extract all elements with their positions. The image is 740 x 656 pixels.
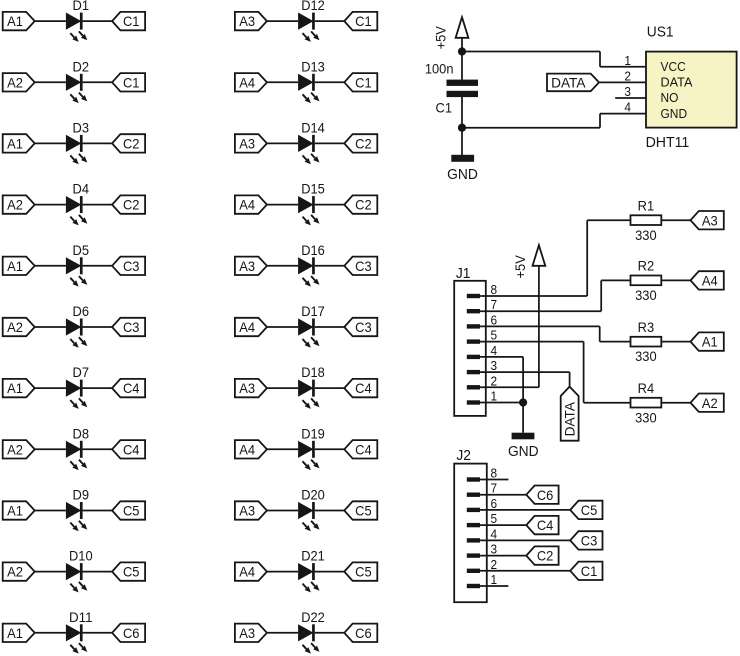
svg-text:+5V: +5V [512, 255, 528, 279]
net label C2 [112, 134, 145, 152]
svg-text:8: 8 [491, 282, 498, 297]
wire [83, 204, 113, 206]
wire [600, 341, 631, 343]
wire [267, 510, 298, 512]
wire [83, 510, 113, 512]
svg-text:A2: A2 [7, 441, 23, 457]
wire [461, 38, 463, 52]
svg-text:1: 1 [624, 53, 631, 68]
wire [661, 279, 690, 281]
pin 5 label [491, 511, 498, 526]
pin 1 label [624, 53, 631, 68]
wire [35, 510, 66, 512]
svg-text:C5: C5 [581, 502, 598, 518]
wire [315, 510, 345, 512]
svg-text:D18: D18 [301, 364, 325, 380]
wire [315, 204, 345, 206]
wire [315, 387, 345, 389]
net label A2 [3, 195, 35, 213]
ground [447, 155, 478, 183]
svg-text:A3: A3 [239, 380, 255, 396]
wire [480, 371, 570, 373]
net label C4 [526, 516, 558, 534]
net label C5 [344, 562, 377, 580]
svg-text:C1: C1 [123, 74, 140, 90]
pin 3 stub [615, 97, 646, 99]
wire [83, 387, 113, 389]
wire [267, 142, 298, 144]
svg-text:GND: GND [508, 443, 539, 460]
svg-text:C3: C3 [581, 533, 598, 549]
LED D22 [298, 609, 325, 654]
svg-text:C6: C6 [355, 625, 372, 641]
net label A4 [235, 440, 267, 458]
svg-text:DHT11: DHT11 [646, 134, 690, 151]
svg-text:C2: C2 [355, 136, 372, 152]
svg-text:D15: D15 [301, 181, 325, 197]
wire [315, 448, 345, 450]
svg-text:J1: J1 [456, 265, 471, 282]
svg-text:A2: A2 [7, 197, 23, 213]
svg-text:A2: A2 [7, 319, 23, 335]
wire [661, 219, 690, 221]
wire [587, 219, 630, 221]
pin 2 label [624, 68, 631, 83]
svg-text:D1: D1 [73, 0, 90, 13]
wire [599, 114, 601, 128]
connector J2 [454, 447, 487, 602]
svg-text:DATA: DATA [562, 401, 578, 436]
net label C6 [344, 624, 377, 642]
wire [522, 357, 524, 403]
net label C3 [570, 531, 602, 549]
svg-text:A4: A4 [239, 564, 255, 580]
wire [480, 341, 584, 343]
svg-text:330: 330 [635, 287, 657, 303]
wire [461, 52, 463, 80]
svg-text:A1: A1 [7, 258, 23, 274]
pin 6 label [491, 312, 498, 327]
wire [480, 402, 523, 404]
svg-text:A4: A4 [702, 273, 718, 289]
wire [599, 52, 601, 67]
svg-text:1: 1 [491, 389, 498, 404]
svg-text:330: 330 [635, 348, 657, 364]
pin 4 label [491, 526, 498, 541]
wire [315, 142, 345, 144]
svg-text:C1: C1 [355, 74, 372, 90]
net label DATA [547, 74, 599, 92]
wire [480, 325, 600, 327]
net label A1 [691, 332, 724, 350]
net label C5 [344, 501, 377, 519]
svg-text:330: 330 [635, 409, 657, 425]
svg-text:8: 8 [491, 466, 498, 481]
svg-text:DATA: DATA [551, 74, 586, 90]
svg-text:2: 2 [491, 373, 498, 388]
svg-text:C5: C5 [123, 503, 140, 519]
svg-text:US1: US1 [647, 24, 674, 41]
svg-text:C3: C3 [355, 258, 372, 274]
LED D21 [298, 548, 325, 593]
wire [480, 539, 570, 541]
svg-text:D21: D21 [301, 548, 325, 564]
+5V supply symbol [432, 17, 468, 49]
svg-text:D7: D7 [73, 364, 90, 380]
wire [35, 142, 66, 144]
pin 2 label [491, 557, 498, 572]
net label C3 [344, 257, 377, 275]
pin 7 label [491, 481, 498, 496]
net label C1 [112, 73, 145, 91]
wire [35, 326, 66, 328]
svg-text:A1: A1 [7, 13, 23, 29]
net label C2 [344, 134, 377, 152]
wire [35, 387, 66, 389]
wire [83, 142, 113, 144]
svg-text:C4: C4 [355, 380, 372, 396]
LED D7 [66, 364, 89, 409]
net label C2 [526, 546, 558, 564]
net label C5 [112, 501, 145, 519]
LED D5 [66, 242, 89, 287]
svg-text:D16: D16 [301, 242, 325, 258]
pin stub wire [480, 479, 508, 481]
pin stub wire [480, 585, 508, 587]
net label C1 [344, 73, 377, 91]
net label A4 [235, 562, 267, 580]
resistor R4 [631, 380, 662, 408]
net label C1 [112, 12, 145, 30]
pin 7 label [491, 297, 498, 312]
wire [480, 524, 526, 526]
svg-text:D11: D11 [69, 609, 93, 625]
svg-text:A3: A3 [239, 625, 255, 641]
wire [480, 555, 526, 557]
wire [461, 128, 463, 155]
svg-text:R3: R3 [638, 319, 655, 335]
svg-text:6: 6 [491, 312, 498, 327]
wire [584, 402, 631, 404]
wire [538, 266, 540, 388]
value 330 (R4) [635, 409, 657, 425]
svg-text:A3: A3 [239, 258, 255, 274]
svg-text:A2: A2 [7, 564, 23, 580]
svg-text:A1: A1 [7, 380, 23, 396]
svg-text:C4: C4 [355, 441, 372, 457]
svg-text:4: 4 [491, 526, 498, 541]
wire [315, 571, 345, 573]
net label A4 [235, 318, 267, 336]
net label A4 [235, 195, 267, 213]
net label A1 [3, 12, 35, 30]
net label A3 [235, 379, 267, 397]
svg-text:C4: C4 [123, 441, 140, 457]
net label A1 [3, 257, 35, 275]
svg-text:2: 2 [624, 68, 631, 83]
resistor R1 [631, 197, 662, 225]
wire [83, 265, 113, 267]
wire [35, 632, 66, 634]
net label A3 [235, 257, 267, 275]
wire [83, 81, 113, 83]
net label A4 [691, 271, 724, 289]
svg-text:C3: C3 [123, 319, 140, 335]
wire [480, 356, 523, 358]
wire [35, 265, 66, 267]
ground [508, 433, 539, 460]
net label A1 [3, 501, 35, 519]
svg-text:1: 1 [491, 572, 498, 587]
LED D11 [66, 609, 93, 654]
svg-text:5: 5 [491, 511, 498, 526]
svg-text:7: 7 [491, 297, 498, 312]
wire [461, 97, 463, 128]
svg-text:C3: C3 [355, 319, 372, 335]
net label C2 [112, 195, 145, 213]
net label C5 [112, 562, 145, 580]
wire [569, 372, 571, 387]
pin 2 label [491, 373, 498, 388]
wire [315, 265, 345, 267]
wire [83, 632, 113, 634]
svg-text:A4: A4 [239, 441, 255, 457]
wire [35, 204, 66, 206]
svg-text:3: 3 [491, 358, 498, 373]
wire [480, 295, 587, 297]
net label A2 [3, 562, 35, 580]
svg-text:D13: D13 [301, 58, 325, 74]
net label A3 [235, 624, 267, 642]
svg-text:J2: J2 [456, 447, 471, 464]
wire [83, 448, 113, 450]
+5V supply symbol [512, 245, 546, 278]
wire [480, 310, 601, 312]
wire [462, 51, 600, 53]
svg-text:D17: D17 [301, 303, 325, 319]
pin 1 label [491, 389, 498, 404]
svg-text:2: 2 [491, 557, 498, 572]
net label C6 [526, 486, 558, 504]
svg-text:A4: A4 [239, 197, 255, 213]
net label C4 [344, 379, 377, 397]
wire [599, 81, 646, 83]
svg-text:D4: D4 [73, 181, 90, 197]
svg-text:D12: D12 [301, 0, 325, 13]
svg-text:R2: R2 [638, 258, 655, 274]
svg-text:DATA: DATA [661, 75, 693, 90]
pin 5 label [491, 328, 498, 343]
wire [583, 342, 585, 403]
wire [83, 326, 113, 328]
svg-text:A1: A1 [7, 503, 23, 519]
wire [586, 220, 588, 296]
svg-text:D3: D3 [73, 119, 90, 135]
svg-text:A4: A4 [239, 319, 255, 335]
net label C4 [112, 440, 145, 458]
svg-text:C4: C4 [537, 517, 554, 533]
wire [267, 571, 298, 573]
wire [462, 127, 600, 129]
wire [267, 265, 298, 267]
LED D10 [66, 548, 93, 593]
node junction [458, 124, 466, 132]
wire [601, 279, 630, 281]
wire [267, 81, 298, 83]
net label A2 [3, 318, 35, 336]
LED D2 [66, 58, 89, 103]
svg-text:7: 7 [491, 481, 498, 496]
net label A3 [235, 134, 267, 152]
net label A2 [3, 440, 35, 458]
wire [35, 81, 66, 83]
svg-text:A3: A3 [239, 136, 255, 152]
LED D4 [66, 181, 89, 226]
svg-text:C5: C5 [123, 564, 140, 580]
svg-text:A2: A2 [7, 74, 23, 90]
node junction [519, 398, 527, 406]
svg-text:D5: D5 [73, 242, 90, 258]
LED D8 [66, 425, 89, 470]
wire [480, 494, 526, 496]
net label A3 [691, 211, 724, 229]
svg-text:C4: C4 [123, 380, 140, 396]
svg-text:A3: A3 [702, 212, 718, 228]
svg-text:A1: A1 [7, 136, 23, 152]
wire [267, 326, 298, 328]
net label DATA [561, 387, 579, 441]
svg-text:C1: C1 [436, 100, 453, 116]
LED D12 [298, 0, 325, 42]
svg-text:A3: A3 [239, 503, 255, 519]
wire [600, 66, 646, 68]
pin 8 label [491, 466, 498, 481]
wire [600, 113, 646, 115]
svg-text:A4: A4 [239, 74, 255, 90]
connector J1 [454, 265, 486, 416]
svg-text:D6: D6 [73, 303, 90, 319]
resistor R2 [631, 258, 662, 286]
svg-text:C6: C6 [537, 487, 554, 503]
net label A1 [3, 379, 35, 397]
LED D17 [298, 303, 325, 348]
net label A3 [235, 12, 267, 30]
wire [35, 20, 66, 22]
net label C3 [344, 318, 377, 336]
pin 3 label [491, 542, 498, 557]
pin 3 label [624, 84, 631, 99]
net label A2 [3, 73, 35, 91]
net label A2 [691, 394, 724, 412]
wire [83, 20, 113, 22]
svg-text:A1: A1 [702, 334, 718, 350]
wire [315, 632, 345, 634]
wire [267, 387, 298, 389]
svg-text:4: 4 [491, 343, 498, 358]
LED D1 [66, 0, 89, 42]
wire [600, 280, 602, 311]
node junction [458, 47, 466, 55]
svg-text:VCC: VCC [661, 59, 686, 74]
svg-text:6: 6 [491, 496, 498, 511]
LED D13 [298, 58, 325, 103]
svg-text:R4: R4 [638, 380, 655, 396]
value 330 (R1) [635, 227, 657, 243]
pin 4 label [624, 100, 631, 115]
wire [35, 448, 66, 450]
svg-text:GND: GND [661, 106, 688, 121]
svg-text:A1: A1 [7, 625, 23, 641]
pin 3 label [491, 358, 498, 373]
net label C6 [112, 624, 145, 642]
svg-text:100n: 100n [425, 61, 454, 77]
svg-text:5: 5 [491, 328, 498, 343]
net label C5 [570, 501, 602, 519]
wire [315, 326, 345, 328]
svg-text:D22: D22 [301, 609, 325, 625]
svg-text:+5V: +5V [432, 26, 448, 50]
wire [599, 326, 601, 341]
svg-text:C2: C2 [123, 136, 140, 152]
svg-text:C1: C1 [123, 13, 140, 29]
wire [267, 632, 298, 634]
pin 1 label [491, 572, 498, 587]
svg-text:C2: C2 [537, 548, 554, 564]
svg-text:3: 3 [491, 542, 498, 557]
pin 4 label [491, 343, 498, 358]
svg-text:A2: A2 [702, 395, 718, 411]
LED D20 [298, 487, 325, 532]
svg-text:D14: D14 [301, 119, 325, 135]
svg-text:C3: C3 [123, 258, 140, 274]
wire [315, 81, 345, 83]
wire [267, 204, 298, 206]
value 330 (R2) [635, 287, 657, 303]
svg-text:D2: D2 [73, 58, 90, 74]
net label C3 [112, 257, 145, 275]
svg-text:D9: D9 [73, 487, 90, 503]
svg-text:D8: D8 [73, 425, 90, 441]
svg-text:4: 4 [624, 100, 631, 115]
wire [35, 571, 66, 573]
svg-text:C5: C5 [355, 503, 372, 519]
pin 6 label [491, 496, 498, 511]
svg-text:C1: C1 [581, 563, 598, 579]
svg-text:R1: R1 [638, 197, 655, 213]
LED D3 [66, 119, 89, 164]
value 330 (R3) [635, 348, 657, 364]
svg-text:GND: GND [447, 166, 478, 183]
svg-text:D19: D19 [301, 425, 325, 441]
svg-text:NO: NO [661, 90, 679, 105]
LED D14 [298, 119, 325, 164]
wire [480, 570, 570, 572]
LED D18 [298, 364, 325, 409]
wire [480, 509, 570, 511]
wire [661, 341, 690, 343]
net label C2 [344, 195, 377, 213]
net label C1 [570, 562, 602, 580]
LED D6 [66, 303, 89, 348]
wire [661, 402, 690, 404]
pin 8 label [491, 282, 498, 297]
net label A1 [3, 134, 35, 152]
net label A1 [3, 624, 35, 642]
wire [522, 403, 524, 433]
wire [480, 386, 539, 388]
wire [267, 448, 298, 450]
svg-text:C5: C5 [355, 564, 372, 580]
